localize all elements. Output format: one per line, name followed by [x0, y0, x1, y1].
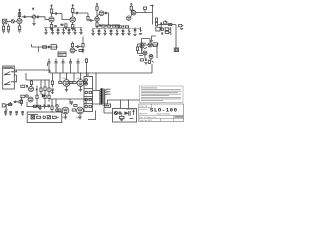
- ground: [39, 109, 42, 110]
- capacitor C29 ground: [9, 112, 12, 114]
- node junction: [26, 95, 28, 97]
- ground: [121, 34, 124, 36]
- pot VR13 depth: [6, 102, 12, 109]
- input jack J1: [3, 19, 7, 24]
- capacitor C2: [36, 16, 41, 19]
- B+ arrow node: [96, 3, 98, 4]
- wire: [41, 17, 49, 20]
- resistor R40 screen: [69, 81, 72, 83]
- ground: [67, 32, 70, 34]
- capacitor C26: [35, 86, 38, 94]
- resistor R25: [148, 60, 153, 63]
- resistor R13: [102, 25, 105, 27]
- wire: [136, 9, 153, 24]
- capacitor C31 ground: [21, 112, 24, 114]
- capacitor C6: [89, 19, 94, 21]
- capacitor C32: [51, 89, 54, 92]
- wire FX riser: [151, 64, 153, 73]
- capacitor C9: [160, 22, 163, 25]
- ground: [64, 28, 67, 30]
- label 8 ohm tap: [106, 91, 110, 92]
- triode V3a: [99, 11, 104, 16]
- resistor R14: [107, 25, 110, 27]
- capacitor C25: [26, 85, 29, 88]
- resistor R8 plate: [72, 8, 74, 12]
- bias supply box: [113, 109, 137, 123]
- label box footswitch send: [58, 52, 66, 57]
- capacitor C8: [122, 25, 125, 27]
- FX loop triode V7b: [149, 55, 153, 59]
- filter cap C19: [55, 59, 58, 74]
- connector output jack: [174, 48, 178, 52]
- label footswitch: [4, 66, 13, 68]
- resistor R43: [51, 73, 53, 87]
- capacitor C30 ground: [15, 112, 18, 114]
- resistor R38: [19, 101, 23, 103]
- capacitor C28 ground: [4, 112, 7, 115]
- ground: [2, 31, 10, 33]
- wire plate V3: [97, 4, 100, 17]
- capacitor C35: [43, 104, 46, 108]
- ground: [62, 32, 65, 34]
- wire bias in: [104, 107, 113, 113]
- capacitor C13: [110, 29, 113, 34]
- resistor R2 plate: [18, 13, 20, 17]
- resistor R6 cathode: [50, 22, 52, 28]
- ground: [91, 34, 94, 36]
- pot VR5: [62, 28, 64, 33]
- wire: [139, 43, 158, 60]
- triode V1a: [17, 18, 22, 23]
- triode V4a: [132, 11, 136, 15]
- wire: [62, 14, 70, 20]
- pot R1 grid: [11, 20, 14, 23]
- resistor R37: [48, 95, 50, 102]
- resistor R33: [21, 95, 25, 97]
- FX loop triode V6b: [148, 43, 152, 47]
- wire: [169, 27, 171, 35]
- wire lower rail: [50, 99, 92, 107]
- capacitor C10: [57, 28, 60, 33]
- wire: [27, 102, 50, 107]
- pot VR7: [80, 28, 82, 33]
- resistor R46 grid: [72, 109, 75, 111]
- resistor R20: [169, 23, 172, 25]
- B+ arrow node: [130, 3, 132, 4]
- wire controls bus right: [92, 27, 141, 29]
- relay box K1: [51, 45, 56, 50]
- node junction dots PI: [26, 79, 45, 107]
- filter cap C20: [62, 59, 65, 74]
- capacitor C17: [75, 45, 82, 50]
- capacitor C36: [47, 105, 50, 108]
- capacitor C14: [122, 29, 125, 34]
- ground: [50, 29, 53, 31]
- resistor R39 grid: [59, 81, 62, 83]
- wire controls bus left: [44, 26, 82, 28]
- diode D1: [42, 94, 44, 97]
- node junction dots rails: [55, 72, 121, 100]
- ground: [133, 35, 136, 36]
- label bias box: [126, 108, 136, 110]
- label 16 ohm tap: [106, 89, 110, 90]
- ground: [115, 34, 118, 36]
- resistor R4 cathode V1a: [18, 24, 20, 30]
- ground: [51, 32, 54, 34]
- pot VR8: [92, 29, 94, 34]
- notes box: [140, 86, 184, 103]
- fuse F1: [52, 116, 58, 118]
- ground: [127, 34, 130, 36]
- ground: [73, 32, 76, 34]
- resistor R49: [130, 110, 135, 118]
- resistor R22: [43, 46, 47, 48]
- resistor R5 plate: [50, 9, 52, 13]
- footswitch box FS1: [3, 66, 15, 89]
- wire OT primary: [93, 73, 100, 104]
- ground: [32, 23, 35, 25]
- ground: [71, 29, 74, 31]
- node tick: [152, 5, 153, 6]
- capacitor C3 coupling: [52, 12, 63, 15]
- capacitor C34: [129, 111, 130, 116]
- resistor R27: [140, 59, 143, 61]
- resistor R18 plate: [130, 6, 132, 10]
- pot VR1 gain: [32, 14, 36, 23]
- triode V2a: [70, 17, 75, 22]
- ground: [150, 40, 153, 42]
- wire bias feed: [107, 100, 140, 108]
- connector P4: [105, 104, 111, 107]
- resistor R35: [36, 94, 38, 102]
- jack circle J2: [85, 79, 88, 82]
- capacitor C39: [99, 24, 102, 26]
- resistor R21: [179, 25, 184, 27]
- resistor R45 grid: [58, 109, 61, 111]
- ground: [103, 34, 106, 36]
- svg-text:Rev. 1.0 Sheet 1 of 1: Rev. 1.0 Sheet 1 of 1: [140, 116, 157, 119]
- svg-text:Made in Fixture: Made in Fixture: [157, 113, 172, 116]
- connector jack bottom left: [2, 104, 5, 107]
- wire plate V2a: [72, 12, 74, 17]
- ground: [78, 117, 81, 119]
- resistor R24: [79, 49, 82, 51]
- triode V4b: [127, 16, 131, 20]
- pot VR6: [74, 28, 76, 33]
- resistor R32: [48, 80, 50, 95]
- diode D2: [125, 112, 129, 114]
- transformer T2 windings: [100, 90, 106, 105]
- pot VR11: [128, 29, 130, 34]
- ground: [65, 90, 68, 92]
- resistor R9 cathode: [72, 22, 74, 28]
- capacitor C5 coupling: [73, 12, 88, 15]
- title block row lines: [139, 104, 184, 122]
- resistor R42 screen: [83, 81, 86, 83]
- resistor R12 cathode: [96, 21, 98, 26]
- capacitor C1 coupling: [22, 16, 33, 19]
- mains supply box: [27, 112, 62, 123]
- ground: [79, 90, 82, 92]
- B+ arrow node: [19, 9, 21, 12]
- label 4 ohm tap: [106, 94, 110, 95]
- pentode V10 6L6: [77, 80, 84, 87]
- pot VR3: [45, 28, 47, 33]
- ground: [44, 32, 47, 34]
- field box: [175, 116, 184, 118]
- ground: [21, 114, 24, 115]
- wire: [66, 114, 81, 117]
- resistor R54: [82, 37, 84, 47]
- connector P3: [153, 43, 157, 47]
- wire OT bottom return: [88, 111, 96, 120]
- resistor R10: [87, 13, 89, 21]
- resistor R29 plate PI: [30, 80, 32, 87]
- wire: [151, 36, 155, 40]
- ground: [109, 34, 112, 36]
- wire: [7, 21, 11, 23]
- filter cap C22: [77, 59, 80, 74]
- triode V3b: [95, 17, 100, 22]
- bias pot VR14: [114, 111, 123, 114]
- jack circle J4: [85, 91, 92, 94]
- capacitor C37: [82, 47, 85, 53]
- pot VR10: [116, 29, 118, 34]
- output transformer T2 core: [102, 88, 104, 104]
- resistor R30: [40, 80, 42, 95]
- ground: [160, 28, 163, 30]
- svg-text:6L6GC: 6L6GC: [77, 78, 83, 80]
- title block frame: [139, 104, 184, 122]
- triode V8a PI: [29, 87, 34, 92]
- wire corner top right: [150, 6, 153, 13]
- ground: [64, 117, 67, 119]
- resistor R48: [120, 113, 124, 119]
- ground: [79, 32, 82, 34]
- resistor R44: [51, 99, 53, 112]
- FX loop triode V6a: [140, 44, 144, 48]
- switch S1: [47, 116, 50, 119]
- pentode V11 6L6: [62, 107, 69, 114]
- resistor R16: [118, 26, 121, 28]
- wire: [67, 86, 81, 89]
- capacitor C12: [98, 29, 101, 34]
- svg-text:Drawn by: Drawn by: [140, 106, 148, 108]
- ground: [15, 114, 18, 115]
- triode V1b: [49, 17, 54, 22]
- resistor R31: [44, 80, 46, 94]
- resistor R53 feedback: [85, 58, 87, 77]
- connector P1: [144, 7, 147, 9]
- wire main bus B: [50, 70, 152, 73]
- resistor R55: [116, 25, 119, 27]
- jack circle J5: [85, 98, 92, 101]
- resistor R26: [136, 44, 143, 54]
- pot VR12: [139, 27, 141, 32]
- triode V8b PI: [28, 97, 33, 102]
- resistor R34: [20, 97, 22, 106]
- pot VR4: [51, 28, 53, 33]
- resistor R23 plate: [71, 42, 73, 48]
- capacitor C7 coupling: [104, 12, 109, 25]
- jack circle J3: [85, 83, 88, 86]
- B+ arrow node: [72, 5, 74, 9]
- svg-text:Date: Jan 2003: Date: Jan 2003: [140, 119, 152, 122]
- notes text: [141, 88, 181, 101]
- svg-text:Checked: Checked: [140, 109, 147, 111]
- resistor R15: [112, 25, 115, 27]
- capacitor C24: [161, 32, 164, 34]
- resistor R11 plate: [96, 6, 98, 10]
- speaker jack panel: [84, 77, 93, 112]
- filter cap C18: [48, 59, 51, 74]
- ground: [5, 110, 8, 112]
- wire grid bus: [99, 24, 119, 26]
- svg-text:6L6GC: 6L6GC: [63, 78, 69, 80]
- capacitor C23: [144, 58, 147, 61]
- wire: [26, 73, 50, 81]
- jack circle J6: [85, 105, 92, 108]
- wire: [11, 70, 17, 82]
- FX loop triode V7a: [143, 51, 147, 55]
- filter cap C21: [69, 59, 72, 74]
- resistor R7: [61, 24, 68, 27]
- ground: [144, 62, 147, 64]
- node B+ mark: [32, 8, 34, 11]
- ground: [139, 34, 142, 35]
- pilot circle: [56, 105, 59, 108]
- resistor R41 grid: [73, 81, 76, 83]
- pot VR2 master: [164, 20, 167, 24]
- label OT: [103, 105, 110, 106]
- ground: [18, 31, 21, 33]
- capacitor C11: [68, 28, 71, 33]
- wire send chain: [32, 44, 59, 52]
- pentode V9 6L6: [63, 80, 70, 87]
- ground: [97, 34, 100, 36]
- lamp L1: [43, 116, 46, 119]
- capacitor C15: [134, 28, 137, 34]
- ground: [51, 93, 54, 94]
- ground: [120, 119, 123, 120]
- capacitor C38: [119, 111, 120, 114]
- resistor R3 grid leak: [2, 24, 9, 30]
- wire: [15, 21, 17, 23]
- wire plate V1a: [19, 12, 21, 18]
- capacitor C27: [14, 101, 19, 103]
- wire: [158, 25, 176, 50]
- wire main bus A: [15, 69, 51, 71]
- ground: [56, 32, 59, 34]
- node junction: [128, 99, 129, 100]
- FX jacks box: [156, 27, 169, 33]
- resistor R51: [33, 105, 36, 107]
- pot VR9: [104, 29, 106, 34]
- wire plate V1b: [51, 13, 53, 17]
- pentode V12 6L6: [77, 107, 84, 114]
- capacitor C16: [47, 46, 50, 49]
- svg-text:Approved: Approved: [140, 112, 148, 115]
- power rail drops: [60, 73, 88, 82]
- resistor R47: [74, 104, 77, 106]
- resistor R50: [37, 116, 41, 118]
- ground: [180, 28, 183, 29]
- wire FX ladder rails: [142, 39, 158, 59]
- ground: [96, 27, 99, 28]
- resistor R19: [155, 18, 157, 26]
- resistor R17: [125, 26, 128, 28]
- resistor R36: [44, 94, 46, 102]
- capacitor C33: [70, 102, 73, 105]
- wire plate V4: [131, 4, 133, 16]
- bridge rectifier BR1: [31, 116, 35, 119]
- B+ arrow node: [51, 5, 53, 9]
- resistor R52: [38, 105, 41, 107]
- pilot circle 2: [56, 109, 59, 112]
- capacitor C4 bypass: [54, 25, 57, 26]
- triode V5a: [70, 48, 75, 53]
- ground: [9, 114, 12, 115]
- resistor R28: [21, 85, 25, 87]
- wire OT secondary taps: [105, 90, 108, 104]
